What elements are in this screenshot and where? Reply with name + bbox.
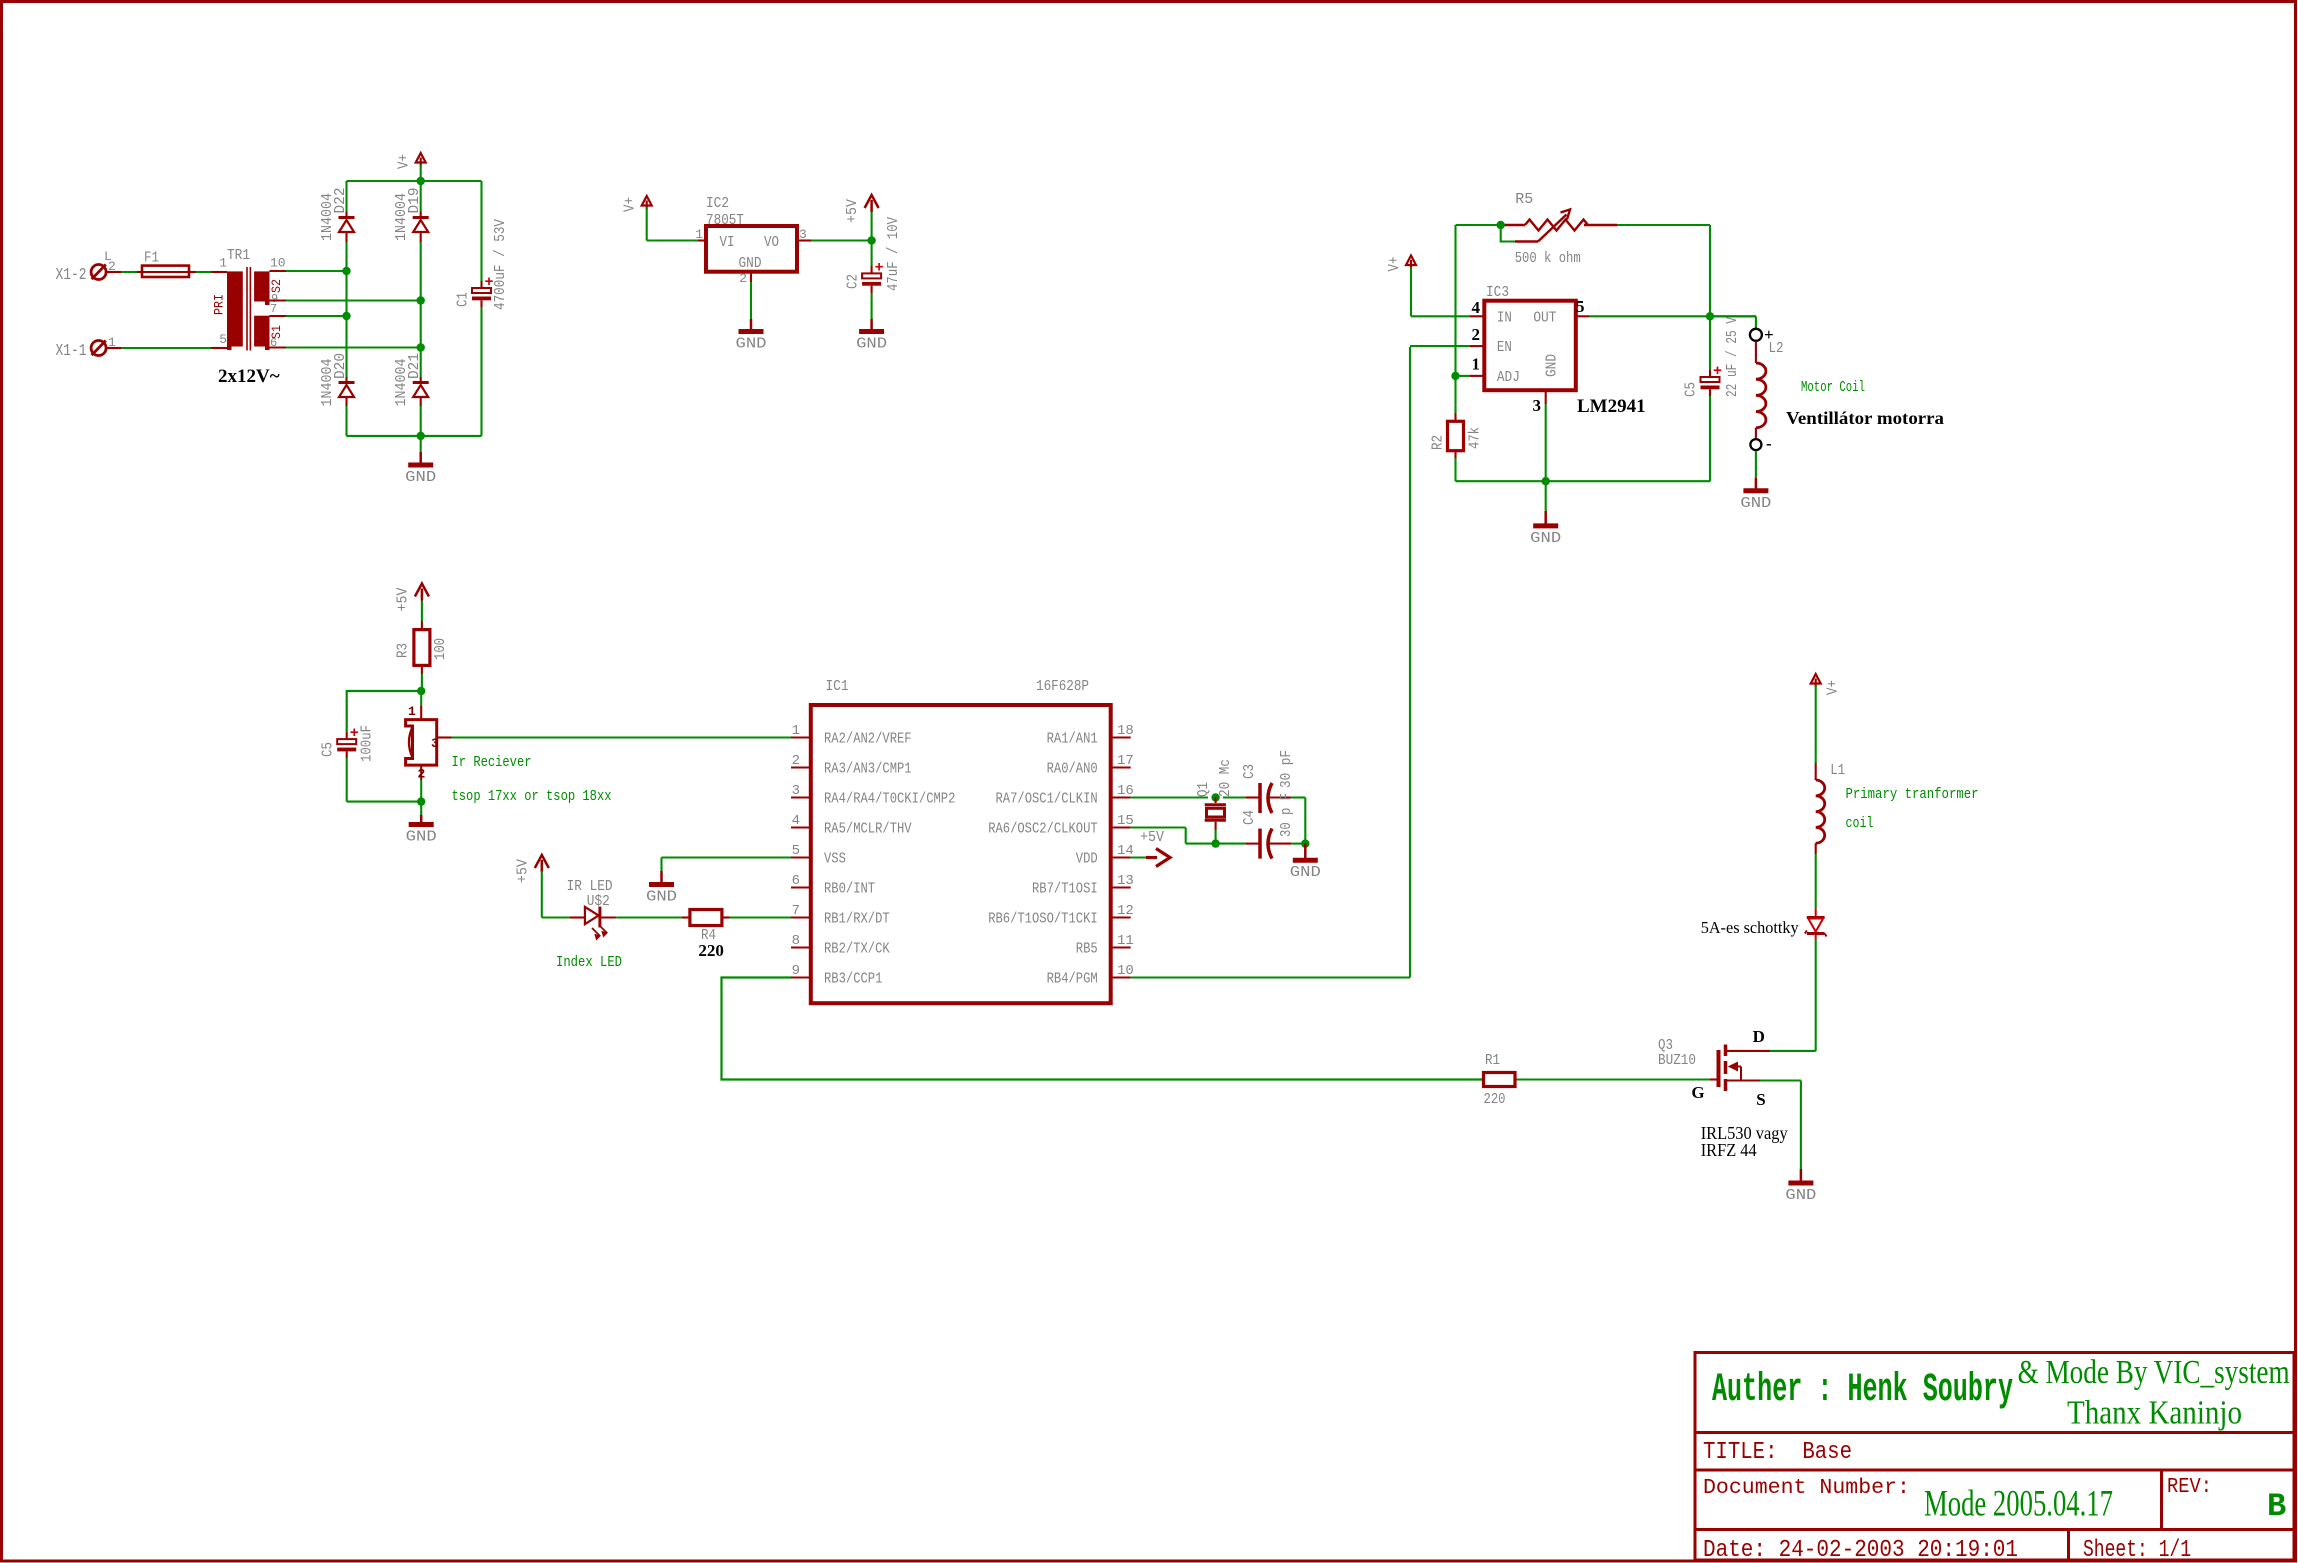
svg-text:1: 1 [408,704,416,719]
svg-text:8: 8 [792,933,800,949]
svg-text:2x12V~: 2x12V~ [218,366,280,387]
svg-text:GND: GND [739,255,762,272]
svg-text:S2: S2 [269,279,284,293]
svg-text:5: 5 [1576,297,1585,316]
svg-text:220: 220 [1484,1091,1506,1108]
svg-text:Motor Coil: Motor Coil [1801,379,1865,396]
svg-text:G: G [1691,1083,1704,1102]
svg-text:6: 6 [792,873,800,889]
svg-text:+5V: +5V [1140,829,1164,846]
svg-text:13: 13 [1117,873,1134,889]
svg-text:1: 1 [695,227,703,242]
svg-text:47uF / 10V: 47uF / 10V [885,217,902,291]
svg-text:Primary tranformer: Primary tranformer [1846,786,1979,803]
svg-text:D20: D20 [332,353,349,379]
svg-text:R5: R5 [1515,191,1533,208]
svg-text:RB7/T1OSI: RB7/T1OSI [1032,882,1098,898]
svg-text:C3: C3 [1241,764,1258,779]
svg-text:Sheet: 1/1: Sheet: 1/1 [2083,1537,2191,1563]
svg-text:Mode 2005.04.17: Mode 2005.04.17 [1924,1484,2113,1525]
svg-text:2: 2 [418,767,426,782]
svg-text:L2: L2 [1769,340,1784,357]
svg-text:EN: EN [1497,339,1512,356]
svg-text:GND: GND [405,469,436,486]
svg-text:GND: GND [1785,1187,1816,1204]
svg-text:PRI: PRI [211,294,226,315]
svg-text:+: + [1713,363,1722,380]
svg-text:1: 1 [1472,355,1481,374]
svg-text:3: 3 [792,783,800,799]
svg-text:BUZ10: BUZ10 [1658,1052,1696,1069]
svg-text:V+: V+ [622,197,639,212]
svg-text:+5V: +5V [394,588,411,612]
svg-text:LM2941: LM2941 [1577,396,1646,417]
svg-text:RB1/RX/DT: RB1/RX/DT [824,912,890,928]
svg-text:D: D [1753,1027,1765,1046]
svg-text:Date: 24-02-2003 20:19:01: Date: 24-02-2003 20:19:01 [1703,1537,2018,1563]
svg-text:RB2/TX/CK: RB2/TX/CK [824,942,890,958]
svg-text:2: 2 [739,271,747,286]
svg-text:C1: C1 [455,292,472,307]
svg-text:RB6/T1OSO/T1CKI: RB6/T1OSO/T1CKI [988,912,1098,928]
svg-text:U$2: U$2 [587,893,610,910]
svg-text:12: 12 [1117,903,1134,919]
svg-text:RB5: RB5 [1076,942,1098,958]
svg-text:R2: R2 [1430,435,1447,450]
svg-text:5A-es schottky: 5A-es schottky [1701,918,1799,937]
svg-text:-: - [1766,434,1772,453]
svg-text:ADJ: ADJ [1497,369,1520,386]
svg-text:RA2/AN2/VREF: RA2/AN2/VREF [824,732,912,748]
svg-text:D19: D19 [406,188,423,214]
svg-text:& Mode By VIC_system: & Mode By VIC_system [2018,1354,2290,1391]
svg-text:VSS: VSS [824,852,846,868]
svg-text:RB0/INT: RB0/INT [824,882,875,898]
svg-text:16F628P: 16F628P [1036,678,1089,695]
svg-text:RA7/OSC1/CLKIN: RA7/OSC1/CLKIN [996,792,1098,808]
svg-text:30 p F: 30 p F [1278,793,1295,837]
svg-text:4700uF / 53V: 4700uF / 53V [492,219,509,310]
svg-text:1: 1 [792,723,800,739]
svg-text:C5: C5 [320,742,337,757]
svg-text:RA0/AN0: RA0/AN0 [1047,762,1098,778]
svg-text:+5V: +5V [844,199,861,223]
svg-text:10: 10 [270,256,286,271]
svg-text:OUT: OUT [1533,310,1556,327]
svg-text:GND: GND [1544,354,1561,377]
svg-text:7: 7 [792,903,800,919]
svg-text:C4: C4 [1241,810,1258,825]
svg-text:18: 18 [1117,723,1134,739]
svg-text:20 Mc: 20 Mc [1217,759,1234,797]
svg-text:D22: D22 [332,188,349,214]
svg-text:Auther : Henk Soubry: Auther : Henk Soubry [1712,1368,2013,1413]
svg-text:RA5/MCLR/THV: RA5/MCLR/THV [824,822,912,838]
svg-text:GND: GND [856,336,887,353]
svg-text:tsop 17xx or tsop 18xx: tsop 17xx or tsop 18xx [452,788,612,805]
svg-text:RB3/CCP1: RB3/CCP1 [824,972,882,988]
svg-text:F1: F1 [144,250,159,267]
svg-text:GND: GND [646,889,677,906]
svg-text:5: 5 [792,843,800,859]
svg-text:220: 220 [698,941,724,960]
svg-text:+: + [875,259,884,276]
svg-text:11: 11 [1117,933,1134,949]
svg-text:47k: 47k [1467,427,1484,449]
svg-text:VO: VO [764,234,779,251]
svg-text:7805T: 7805T [706,212,744,229]
svg-text:L1: L1 [1830,762,1845,779]
svg-text:IC2: IC2 [706,195,729,212]
svg-text:22 uF / 25 V: 22 uF / 25 V [1724,317,1741,397]
svg-text:100: 100 [432,638,449,660]
svg-text:Ir Reciever: Ir Reciever [452,754,532,771]
svg-text:IN: IN [1497,310,1512,327]
svg-text:Ventillátor motorra: Ventillátor motorra [1786,408,1944,428]
svg-text:Index LED: Index LED [556,954,622,971]
svg-text:GND: GND [736,336,767,353]
svg-text:TR1: TR1 [227,247,250,264]
svg-text:30 pF: 30 pF [1278,750,1295,788]
svg-text:7: 7 [270,302,277,316]
svg-text:Document Number:: Document Number: [1703,1477,1910,1500]
svg-text:RA6/OSC2/CLKOUT: RA6/OSC2/CLKOUT [988,822,1098,838]
svg-text:RB4/PGM: RB4/PGM [1047,972,1098,988]
svg-text:500 k ohm: 500 k ohm [1515,250,1581,267]
svg-text:TITLE: Base: TITLE: Base [1703,1439,1852,1466]
svg-text:RA4/RA4/T0CKI/CMP2: RA4/RA4/T0CKI/CMP2 [824,792,955,808]
svg-text:IRFZ 44: IRFZ 44 [1701,1140,1757,1160]
svg-text:V+: V+ [1825,680,1842,695]
svg-text:RA3/AN3/CMP1: RA3/AN3/CMP1 [824,762,912,778]
svg-text:X1-2: X1-2 [56,266,87,285]
svg-text:B: B [2267,1488,2286,1525]
svg-text:VDD: VDD [1076,852,1098,868]
svg-text:IC1: IC1 [826,678,849,695]
svg-text:2: 2 [792,753,800,769]
svg-text:X1-1: X1-1 [56,342,87,361]
svg-text:+: + [350,725,359,742]
svg-text:VI: VI [720,234,735,251]
svg-text:4: 4 [792,813,800,829]
svg-text:17: 17 [1117,753,1134,769]
svg-text:5: 5 [219,332,227,347]
svg-text:GND: GND [1530,530,1561,547]
svg-text:4: 4 [1472,298,1481,317]
svg-text:R1: R1 [1485,1052,1500,1069]
svg-text:GND: GND [406,829,437,846]
svg-text:RA1/AN1: RA1/AN1 [1047,732,1098,748]
svg-text:D21: D21 [406,353,423,379]
svg-text:1: 1 [219,256,227,271]
svg-text:Q1: Q1 [1195,782,1212,797]
svg-text:V+: V+ [396,154,413,169]
svg-text:GND: GND [1740,495,1771,512]
svg-text:V+: V+ [1386,257,1403,272]
svg-text:C5: C5 [1683,382,1700,397]
svg-text:REV:: REV: [2167,1476,2212,1499]
svg-text:2: 2 [1472,325,1481,344]
svg-text:GND: GND [1290,864,1321,881]
svg-text:100uF: 100uF [359,725,376,762]
svg-text:9: 9 [792,963,800,979]
svg-text:Thanx Kaninjo: Thanx Kaninjo [2067,1394,2242,1431]
svg-text:S: S [1756,1090,1765,1109]
svg-text:R3: R3 [395,643,412,658]
svg-text:C2: C2 [845,274,862,289]
svg-text:IC3: IC3 [1486,284,1509,301]
svg-text:3: 3 [1533,396,1542,415]
svg-text:coil: coil [1846,815,1874,832]
svg-text:+5V: +5V [514,859,531,883]
